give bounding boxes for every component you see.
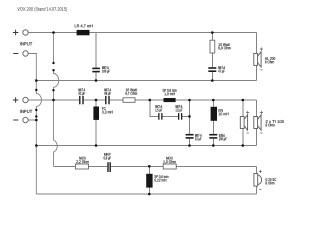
speaker G 20 SC (tweeter) <box>254 170 276 190</box>
wire: mid left speaker drop <box>242 100 244 146</box>
wire: bottom return rail <box>36 193 256 195</box>
node: + bus segment point 2 <box>52 69 54 71</box>
node: SP 0,22 bottom junction <box>148 193 151 196</box>
resistor 10 Watt 4,7 Ohm <box>123 88 137 102</box>
node: - bus hop bottom point <box>35 109 37 111</box>
node: left speaker bottom on mid return <box>242 144 245 147</box>
capacitor MKT-A 82uF <box>79 88 86 104</box>
wire: KN-Elko shunt branch <box>212 100 214 146</box>
wire: - bus vertical with hop over mid feed <box>36 54 41 195</box>
resistor 10 Watt 6,8 Ohm <box>210 40 231 53</box>
wire: mid return rail <box>36 145 256 147</box>
node: mid left speaker top <box>242 99 245 102</box>
resistor MOX 2,2 Ohm <box>75 157 88 169</box>
wire: FC shunt branch <box>95 100 97 146</box>
node: + bus on top rail <box>52 31 55 34</box>
input terminal - (top) <box>13 51 28 56</box>
speaker AL 200 (woofer) <box>254 47 275 70</box>
wire: woofer speaker drop <box>256 33 258 81</box>
wire: top + rail (woofer feed) <box>28 32 256 34</box>
node: + bus mid feed junction <box>52 99 55 102</box>
wire: RC impedance branch <box>211 33 213 81</box>
capacitor MKT-A 68uF <box>104 88 111 104</box>
wire: mid right speaker drop <box>256 100 258 146</box>
inductor SP 0,6mm 1,0 mH <box>163 89 177 102</box>
label INPUT (top) <box>20 42 32 45</box>
node: - bus on mid return <box>35 144 38 147</box>
input terminal - (mid) <box>13 117 28 122</box>
resistor MOX 1,0 Ohm <box>163 157 176 169</box>
node: 15uF bottom on mid return <box>188 144 191 147</box>
wire: input1 minus stub <box>28 53 37 55</box>
inductor SP 0,6mm 0,22 mH <box>146 174 168 188</box>
label INPUT (mid) <box>20 110 32 113</box>
wire: tweeter feed rail <box>54 165 257 167</box>
node: FC top junction <box>95 99 98 102</box>
title <box>17 7 67 12</box>
wire: mid feed rail <box>28 99 256 101</box>
capacitor MKT-A 15uF <box>186 134 202 141</box>
capacitor MKT-A 1,5uF (right) <box>176 105 183 120</box>
node: lower branch return junction <box>188 115 191 118</box>
capacitor MKT-A 1,5uF (left) <box>155 105 162 120</box>
inductor LR 4,7 mH <box>75 25 93 36</box>
capacitor MKT-A 100uF <box>92 66 110 73</box>
input terminal + (top) <box>13 30 28 36</box>
wire: + bus vertical with hops over return rails <box>54 33 59 167</box>
node: RC branch on top rail <box>211 31 214 34</box>
capacitor MKP 6,8uF <box>104 153 111 172</box>
input terminal + (mid) <box>13 97 28 103</box>
node: + bus segment point 1 <box>52 62 54 64</box>
wire: woofer return rail <box>36 80 256 82</box>
wire: tweeter speaker drop <box>256 166 258 194</box>
wire: 15uF shunt branch <box>189 100 191 146</box>
node: - bus on woofer return <box>35 79 38 82</box>
speaker TI 100 (right) <box>254 111 284 133</box>
node: - bus hop top point <box>35 89 37 91</box>
node: Elko bottom on mid return <box>212 144 215 147</box>
wire: 100uF shunt branch <box>95 33 97 81</box>
node: SP 0,22 top junction <box>148 165 151 168</box>
node: parallel block left <box>149 99 152 102</box>
capacitor MKT-A 47uF <box>208 66 225 73</box>
wire: parallel LC lower branch <box>150 100 190 116</box>
inductor FC 3,3 mH <box>93 107 112 120</box>
inductor KN 10 mH <box>211 107 229 121</box>
node: - bus above input2 <box>35 115 37 117</box>
wire: input2 minus stub <box>28 119 37 121</box>
node: input2 minus junction <box>35 119 38 122</box>
node: RC branch on woofer return <box>211 79 214 82</box>
node: + bus below hop <box>52 89 54 91</box>
node: parallel block right <box>188 99 191 102</box>
speaker TI 100 (left) <box>240 111 249 133</box>
capacitor Elko 150uF <box>209 134 226 141</box>
wire: SP 0,22mH shunt branch <box>148 166 150 194</box>
node: FC bottom on mid return <box>95 144 98 147</box>
node: KN branch top <box>212 99 215 102</box>
node: 100uF on woofer return <box>95 79 98 82</box>
